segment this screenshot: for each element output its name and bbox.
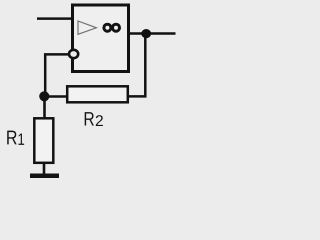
- wire: node A to R2: [45, 95, 68, 98]
- wire: R1 to ground: [43, 162, 46, 174]
- wire: non-inverting input: [37, 17, 74, 20]
- op-amp U1 triangle symbol: [78, 21, 96, 34]
- resistor R2 body: [67, 86, 128, 102]
- resistor R1 body: [34, 118, 53, 163]
- node A junction dot: [39, 91, 49, 101]
- output node junction dot: [141, 29, 151, 38]
- ground symbol: [30, 174, 59, 179]
- label R2: [85, 112, 103, 126]
- wire: inverting input to node A: [45, 54, 68, 96]
- op-amp U1 body: [73, 5, 129, 72]
- wire: op-amp output: [129, 32, 176, 35]
- op-amp U1 infinity gain symbol: [104, 24, 120, 31]
- label R1: [7, 131, 24, 145]
- inverting input bubble: [69, 50, 78, 58]
- wire: R2 to output node: [128, 34, 145, 96]
- wire: node A to R1: [43, 96, 46, 119]
